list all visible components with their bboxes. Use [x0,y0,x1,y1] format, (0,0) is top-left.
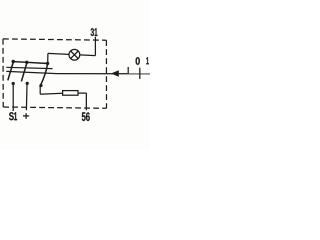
contact dot bottom 2 [26,82,29,85]
position tick long (crossing line) [139,68,141,79]
lamp cross stroke 2 [71,51,79,59]
contact dot bottom 1 [12,82,15,85]
actuator line to the right [57,73,150,75]
contact dot top 1 [12,60,15,63]
coupling bar upper line [6,67,52,68]
terminal label 56: digit 5 [82,112,86,121]
position label 1 [146,57,149,64]
wire lamp right horizontal [80,54,96,57]
contact dot bottom 3 [39,84,42,87]
housing dashed border bottom [3,107,106,108]
wire lamp left horizontal [48,53,69,54]
switch blade 2 [21,63,27,82]
terminal label S1: letter S [9,112,14,120]
wire to resistor [40,92,62,95]
housing dashed border top [3,39,106,40]
position label 0 [136,57,140,65]
pin + vertical [25,85,28,111]
bus line connecting top contacts [13,62,48,64]
wire terminal 31 vertical [94,37,96,56]
terminal label + : horizontal stroke [23,115,29,117]
terminal label + : vertical stroke [25,113,27,119]
terminal label S1: digit 1 [14,112,17,120]
housing dashed border left [2,39,4,107]
switch blade 1 [8,62,14,81]
actuator direction triangle [111,70,119,77]
resistor R body [63,91,78,96]
terminal label 31: digit 1 [95,28,98,36]
position tick short (above line) [127,67,129,73]
terminal label 31: digit 3 [91,28,94,36]
lamp cross stroke 1 [71,51,79,59]
contact dot top 2 [25,61,28,64]
wire lamp-left vertical down to bus [47,53,49,63]
housing dashed border right [105,40,107,108]
pin S1 vertical [12,84,14,111]
switch blade 3 [40,63,48,87]
contact dot top 3 [46,62,49,65]
wire resistor to 56 pin [78,92,86,94]
lamp circle [69,49,80,60]
stem from blade3 bottom contact [39,86,41,94]
pin 56 vertical [85,93,87,110]
coupling bar lower line [6,71,57,73]
terminal label 56: digit 6 [86,112,90,121]
